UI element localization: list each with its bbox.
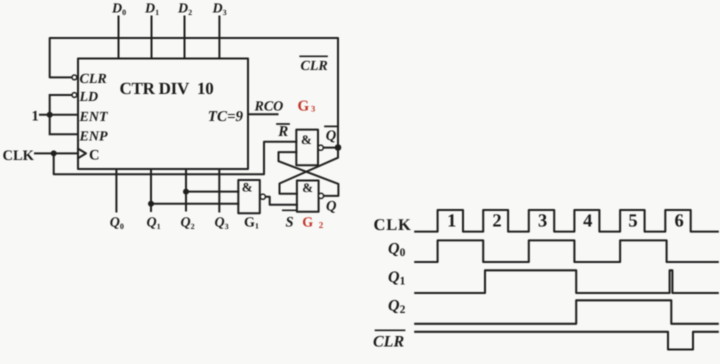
svg-text:D0: D0: [111, 2, 126, 17]
svg-text:TC=9: TC=9: [208, 109, 244, 125]
svg-text:R: R: [277, 124, 288, 140]
svg-text:&: &: [301, 132, 312, 147]
svg-text:Q0: Q0: [110, 216, 124, 231]
svg-text:C: C: [89, 148, 99, 164]
svg-text:2: 2: [492, 212, 501, 232]
svg-text:Q2: Q2: [181, 216, 195, 231]
svg-text:G3: G3: [298, 98, 316, 114]
svg-text:CLR: CLR: [80, 72, 107, 87]
svg-text:6: 6: [674, 212, 683, 232]
svg-text:3: 3: [538, 212, 547, 232]
svg-text:&: &: [242, 179, 253, 194]
svg-text:CLR: CLR: [301, 59, 328, 74]
svg-text:D2: D2: [177, 2, 192, 17]
svg-text:ENP: ENP: [79, 130, 108, 145]
svg-text:Q: Q: [326, 128, 337, 144]
svg-text:4: 4: [583, 212, 592, 232]
svg-text:Q1: Q1: [388, 269, 406, 288]
svg-text:&: &: [302, 180, 313, 195]
svg-text:5: 5: [628, 212, 637, 232]
svg-text:Q: Q: [326, 199, 337, 215]
svg-text:D3: D3: [212, 2, 227, 17]
svg-text:CLK: CLK: [3, 148, 35, 164]
svg-text:1: 1: [32, 109, 39, 125]
svg-text:S: S: [286, 215, 294, 231]
svg-text:CLK: CLK: [374, 215, 412, 234]
svg-text:Q1: Q1: [147, 216, 161, 231]
svg-text:LD: LD: [79, 90, 99, 105]
svg-text:D1: D1: [144, 2, 159, 17]
svg-text:Q3: Q3: [215, 216, 229, 231]
svg-text:CTR DIV 10: CTR DIV 10: [119, 79, 213, 98]
svg-text:RCO: RCO: [254, 99, 284, 114]
svg-text:Q2: Q2: [388, 297, 406, 316]
svg-text:G2: G2: [302, 216, 323, 231]
svg-text:ENT: ENT: [79, 110, 109, 125]
svg-text:1: 1: [447, 212, 456, 232]
svg-text:Q0: Q0: [388, 241, 406, 260]
svg-text:G1: G1: [244, 216, 259, 231]
svg-text:CLR: CLR: [373, 333, 404, 350]
